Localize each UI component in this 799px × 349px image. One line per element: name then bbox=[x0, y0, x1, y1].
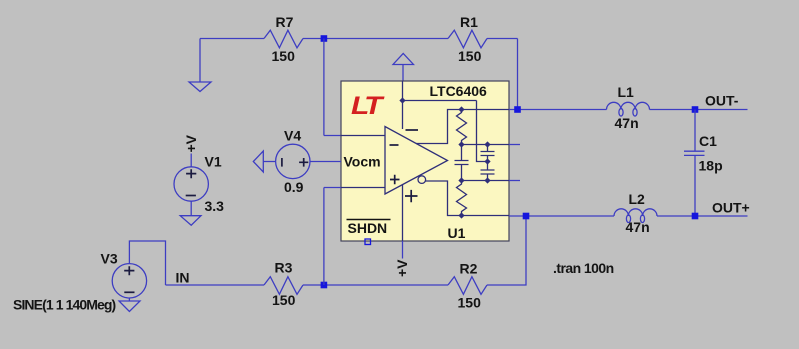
output plus mark bbox=[405, 190, 418, 202]
wire ground drop top-left bbox=[199, 39, 201, 83]
svg-text:+V: +V bbox=[183, 134, 199, 152]
node dot (cap pair top) bbox=[484, 141, 490, 147]
value 18p bbox=[699, 158, 723, 174]
svg-text:R7: R7 bbox=[276, 14, 294, 30]
node IN label bbox=[176, 270, 190, 286]
internal cap pair upper bbox=[481, 145, 495, 170]
wire L1 to OUT- bbox=[650, 109, 748, 111]
svg-text:OUT+: OUT+ bbox=[712, 200, 750, 216]
label C1 bbox=[699, 133, 717, 149]
wire drop to OUT- rail bbox=[517, 39, 519, 110]
designator U1 bbox=[448, 225, 466, 241]
svg-text:150: 150 bbox=[272, 48, 296, 64]
node junction OUT+ rail / R2 bbox=[523, 213, 530, 220]
pin SHDN open square bbox=[365, 239, 371, 245]
output minus mark bbox=[406, 129, 419, 131]
internal resistor upper bbox=[457, 110, 467, 145]
node junction R7/R1/inverting-input bbox=[321, 35, 328, 42]
value SINE(1 1 140Meg) bbox=[13, 296, 116, 312]
pin SHDN label with overline bbox=[347, 220, 391, 237]
inductor L2 bbox=[614, 209, 657, 223]
svg-text:C1: C1 bbox=[699, 133, 717, 149]
value 3.3 bbox=[205, 198, 225, 214]
wire R1 to output drop bbox=[487, 38, 518, 40]
net label OUT- bbox=[705, 92, 739, 108]
+V internal rail horizontal bbox=[403, 100, 477, 102]
wire junction down to minus input bbox=[324, 39, 341, 136]
svg-text:R1: R1 bbox=[460, 14, 478, 30]
pin +V bottom line bbox=[402, 241, 404, 259]
wire top-left from ground to R7 bbox=[200, 38, 264, 40]
svg-text:150: 150 bbox=[458, 48, 482, 64]
wire V4 to ground bbox=[263, 161, 275, 163]
svg-text:R3: R3 bbox=[275, 260, 293, 276]
ground (top-left) bbox=[189, 82, 211, 92]
value 150 (R2) bbox=[458, 294, 482, 310]
V3 minus mark bbox=[124, 291, 134, 293]
wire R3 to R2 bbox=[303, 284, 448, 286]
svg-text:.tran 100n: .tran 100n bbox=[553, 260, 614, 276]
label V4 bbox=[284, 128, 301, 144]
label LTC6406 bbox=[430, 83, 488, 99]
non-inverting input pin line bbox=[341, 187, 386, 189]
wire C1 top stem bbox=[694, 110, 696, 152]
label R1 bbox=[460, 14, 478, 30]
wire R2 up to OUT+ rail bbox=[487, 216, 526, 285]
node junction OUT+ / C1 bbox=[692, 213, 699, 220]
V4 plus mark bbox=[299, 158, 308, 167]
node dot (divider bottom) bbox=[458, 212, 464, 218]
op-amp U1 (LTC6406) body bbox=[341, 81, 509, 241]
pin stub lower right bbox=[509, 180, 520, 182]
svg-text:U1: U1 bbox=[448, 225, 466, 241]
wire OUT- rail left bbox=[509, 109, 607, 111]
value 150 (R1) bbox=[458, 48, 482, 64]
pin Vocm label bbox=[344, 154, 381, 170]
voltage source V3 bbox=[112, 264, 146, 298]
label R7 bbox=[276, 14, 294, 30]
label +V (V1 stub, rotated) bbox=[183, 134, 199, 152]
wire IN net bbox=[166, 284, 265, 286]
internal jog to cap midpoint bbox=[477, 101, 488, 162]
resistor R1 bbox=[448, 30, 487, 48]
wire OUT+ rail left bbox=[509, 215, 614, 217]
ground (V3) bbox=[119, 301, 140, 312]
svg-text:SINE(1 1 140Meg): SINE(1 1 140Meg) bbox=[13, 296, 116, 312]
wire V4 to Vocm bbox=[310, 161, 341, 163]
resistor R2 bbox=[448, 277, 487, 295]
resistor R3 bbox=[264, 277, 303, 295]
value 150 (R7) bbox=[272, 48, 296, 64]
pin stub upper right bbox=[509, 144, 520, 146]
svg-text:150: 150 bbox=[458, 294, 482, 310]
node junction R3/R2/plus-input bbox=[321, 282, 328, 289]
node junction OUT- rail / R1 bbox=[514, 106, 521, 113]
svg-text:SHDN: SHDN bbox=[348, 220, 388, 236]
svg-text:0.9: 0.9 bbox=[284, 179, 304, 195]
svg-text:Vocm: Vocm bbox=[344, 154, 381, 170]
resistor R7 bbox=[264, 30, 303, 48]
wire +V stub to V1 bbox=[190, 154, 192, 168]
internal resistor lower bbox=[457, 181, 467, 216]
svg-text:OUT-: OUT- bbox=[705, 92, 739, 108]
plus mark (input) bbox=[390, 175, 400, 185]
node dot (cap pair bottom) bbox=[484, 177, 490, 183]
internal capacitor middle bbox=[455, 145, 469, 181]
node dot (divider lower-mid) bbox=[458, 177, 464, 183]
voltage source V4 bbox=[276, 144, 310, 178]
lower output tap bbox=[426, 181, 510, 216]
node junction OUT- / C1 bbox=[692, 106, 699, 113]
wire +V arrow to U1 bbox=[402, 65, 404, 83]
wire L2 to OUT+ bbox=[657, 215, 748, 217]
svg-text:47n: 47n bbox=[615, 115, 639, 131]
svg-text:L1: L1 bbox=[618, 84, 635, 100]
svg-text:IN: IN bbox=[176, 270, 190, 286]
wire R7 to R1 bbox=[303, 38, 448, 40]
internal supply line to bottom pin bbox=[402, 185, 404, 242]
+V supply arrow above U1 bbox=[393, 54, 414, 65]
value 0.9 bbox=[284, 179, 304, 195]
svg-text:V3: V3 bbox=[101, 250, 118, 266]
wire V1 to ground bbox=[190, 201, 192, 216]
svg-text:V4: V4 bbox=[284, 128, 301, 144]
upper output tap bbox=[416, 110, 509, 144]
label L2 bbox=[629, 191, 646, 207]
node dot (divider top) bbox=[458, 106, 464, 112]
label V1 bbox=[205, 153, 222, 169]
label V3 bbox=[101, 250, 118, 266]
internal cap pair lower bbox=[481, 170, 495, 181]
ground (V4, rotated left) bbox=[253, 151, 263, 172]
minus mark (input) bbox=[390, 144, 399, 146]
op-amp triangle bbox=[385, 127, 448, 195]
V1 plus mark bbox=[186, 169, 196, 178]
wire C1 bottom stem bbox=[694, 156, 696, 216]
wire V3 top bend bbox=[129, 241, 165, 285]
capacitor C1 bbox=[684, 151, 705, 155]
value 47n (L1) bbox=[615, 115, 639, 131]
ground (V1) bbox=[180, 216, 201, 226]
inverting input pin line bbox=[341, 135, 386, 137]
wire V3 to ground bbox=[128, 298, 130, 301]
V4 minus mark (rotated) bbox=[281, 158, 283, 167]
node dot (divider upper-mid) bbox=[458, 141, 464, 147]
voltage source V1 bbox=[174, 167, 208, 201]
value 150 (R3) bbox=[272, 292, 296, 308]
svg-text:150: 150 bbox=[272, 292, 296, 308]
label R2 bbox=[460, 261, 478, 277]
wire junction up to plus input bbox=[324, 188, 341, 286]
svg-text:LTC6406: LTC6406 bbox=[430, 83, 488, 99]
svg-text:R2: R2 bbox=[460, 261, 478, 277]
V1 minus mark bbox=[186, 195, 196, 197]
inductor L1 bbox=[607, 102, 650, 116]
node dot (+V rail) bbox=[399, 97, 405, 103]
svg-text:V1: V1 bbox=[205, 153, 222, 169]
net label OUT+ bbox=[712, 200, 750, 216]
internal feedback line upper bbox=[462, 144, 510, 146]
svg-text:47n: 47n bbox=[626, 219, 650, 235]
svg-text:18p: 18p bbox=[699, 158, 723, 174]
svg-text:L2: L2 bbox=[629, 191, 646, 207]
LT logo bbox=[351, 91, 385, 119]
+V internal rail vertical top bbox=[402, 81, 404, 129]
node dot (cap pair mid) bbox=[484, 158, 490, 164]
V3 plus mark bbox=[124, 266, 134, 275]
svg-text:3.3: 3.3 bbox=[205, 198, 225, 214]
svg-text:+V: +V bbox=[394, 259, 410, 277]
internal feedback line lower bbox=[462, 180, 510, 182]
value 47n (L2) bbox=[626, 219, 650, 235]
label +V bottom (rotated) bbox=[394, 259, 410, 277]
label L1 bbox=[618, 84, 635, 100]
output bubble bbox=[418, 176, 426, 184]
directive .tran 100n bbox=[553, 260, 614, 276]
label R3 bbox=[275, 260, 293, 276]
